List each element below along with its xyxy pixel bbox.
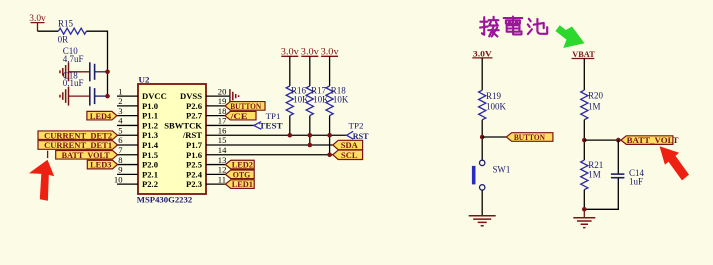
- svg-text:5: 5: [118, 125, 122, 135]
- power 3.0v top-left: [29, 13, 46, 31]
- svg-text:SCL: SCL: [341, 151, 358, 160]
- svg-text:3: 3: [118, 106, 122, 116]
- junction dot divider node: [582, 138, 587, 143]
- svg-text:P1.3: P1.3: [142, 130, 158, 140]
- wire R17 bottom: [309, 116, 311, 145]
- left pin numbers: [114, 86, 123, 184]
- hanzi 電: [504, 17, 523, 35]
- resistor R21: [581, 160, 604, 190]
- wire VBAT to R20: [583, 59, 585, 91]
- svg-text:LED3: LED3: [90, 161, 111, 170]
- svg-text:1M: 1M: [588, 169, 601, 179]
- svg-text:P2.3: P2.3: [186, 179, 202, 189]
- svg-text:BUTTON: BUTTON: [514, 133, 545, 142]
- svg-text:LED2: LED2: [232, 161, 253, 170]
- wire R21 to ground node: [583, 190, 585, 210]
- wire R19 to SW1: [481, 120, 483, 160]
- junction dot C14 tap: [616, 138, 621, 143]
- resistor R18: [326, 85, 349, 115]
- svg-text:1M: 1M: [588, 101, 601, 111]
- junction dot R18-SCL: [327, 152, 332, 157]
- junction dot R17-RST crossing: [308, 133, 313, 138]
- wire SW1 to ground: [481, 190, 483, 216]
- svg-text:14: 14: [218, 145, 227, 155]
- svg-text:BUTTON: BUTTON: [230, 102, 261, 111]
- svg-text:P1.6: P1.6: [186, 150, 203, 160]
- svg-text:P1.7: P1.7: [186, 140, 203, 150]
- junction dot ground node: [582, 207, 587, 212]
- svg-text:8: 8: [118, 155, 122, 165]
- chip pin names right column: [164, 91, 202, 189]
- resistor R17: [306, 85, 329, 115]
- IC U2 MSP430G2232 body: [137, 74, 206, 204]
- wire R18 bottom: [329, 116, 331, 155]
- svg-text:20: 20: [218, 86, 227, 96]
- capacitor C10: [63, 46, 108, 81]
- junction dot C10 node: [105, 70, 110, 75]
- svg-text:LED1: LED1: [232, 180, 253, 189]
- wire node to BATT_VOLT port: [584, 139, 621, 141]
- svg-text:P2.2: P2.2: [142, 179, 158, 189]
- capacitor C14: [611, 168, 645, 186]
- svg-text:4.7uF: 4.7uF: [63, 54, 84, 64]
- wire C14 bottom to ground node: [584, 178, 618, 210]
- svg-text:P1.4: P1.4: [142, 140, 159, 150]
- svg-text:LED4: LED4: [90, 112, 112, 121]
- port BUTTON at pin 19: [225, 102, 265, 111]
- svg-text:/CE: /CE: [229, 112, 248, 121]
- svg-text:0R: 0R: [58, 35, 69, 45]
- hanzi 池: [528, 19, 547, 34]
- junction dot BUTTON node: [480, 135, 485, 140]
- port SDA: [333, 140, 363, 150]
- svg-text:TEST: TEST: [259, 121, 283, 131]
- svg-text:16: 16: [218, 125, 227, 135]
- svg-text:12: 12: [218, 165, 227, 175]
- junction dot R16-RST: [288, 133, 293, 138]
- svg-text:13: 13: [218, 155, 227, 165]
- svg-text:P1.1: P1.1: [142, 111, 158, 121]
- port /CE at pin 18: [225, 111, 256, 120]
- wire R16 bottom: [289, 116, 291, 136]
- port BUTTON right: [506, 133, 553, 142]
- port BATT_VOLT left: [56, 150, 118, 159]
- red arrow right: [660, 146, 690, 180]
- svg-text:R20: R20: [588, 91, 604, 101]
- svg-text:1uF: 1uF: [629, 177, 643, 187]
- svg-text:10K: 10K: [333, 95, 349, 105]
- svg-text:U2: U2: [139, 74, 150, 84]
- svg-text:17: 17: [218, 116, 227, 126]
- svg-text:VBAT: VBAT: [572, 49, 595, 59]
- green arrow: [555, 25, 584, 48]
- stray tick left of BATT_VOLT: [47, 151, 49, 159]
- resistor R20: [581, 90, 604, 120]
- svg-text:TP2: TP2: [349, 120, 364, 130]
- svg-text:SDA: SDA: [341, 141, 358, 150]
- svg-text:4: 4: [118, 116, 123, 126]
- resistor R16: [286, 85, 309, 115]
- svg-text:19: 19: [218, 96, 227, 106]
- junction dot DVCC node: [105, 94, 110, 99]
- port BATT_VOLT right: [621, 136, 679, 145]
- wire power to R15: [38, 30, 59, 32]
- ground under SW1: [469, 216, 496, 226]
- svg-text:18: 18: [218, 106, 227, 116]
- svg-text:7: 7: [118, 145, 123, 155]
- svg-text:R19: R19: [486, 91, 502, 101]
- port SCL: [333, 150, 363, 160]
- ground for C10: [60, 62, 90, 81]
- svg-text:0.1uF: 0.1uF: [63, 78, 84, 88]
- svg-text:9: 9: [118, 165, 122, 175]
- svg-text:3.0v: 3.0v: [29, 13, 46, 23]
- port LED3: [87, 160, 117, 169]
- svg-text:1: 1: [118, 86, 122, 96]
- power 3.0v above R16: [281, 46, 300, 56]
- svg-text:P2.0: P2.0: [142, 160, 158, 170]
- svg-text:P1.0: P1.0: [142, 101, 158, 111]
- svg-text:BATT_VOLT: BATT_VOLT: [62, 151, 111, 160]
- svg-text:MSP430G2232: MSP430G2232: [137, 195, 193, 205]
- svg-text:DVCC: DVCC: [142, 91, 167, 101]
- wire R16 top: [289, 56, 291, 86]
- port LED1: [225, 180, 254, 189]
- svg-text:10: 10: [114, 174, 123, 184]
- svg-text:CURRENT_DET1: CURRENT_DET1: [44, 141, 112, 150]
- capacitor C18: [63, 71, 108, 106]
- svg-text:3.0v: 3.0v: [281, 46, 300, 56]
- svg-text:11: 11: [218, 174, 226, 184]
- port TEST open arrow: [254, 121, 283, 131]
- port RST open arrow: [347, 131, 369, 141]
- port CURRENT_DET2: [38, 131, 118, 140]
- port OTG: [225, 170, 254, 179]
- svg-text:3.0v: 3.0v: [321, 46, 340, 56]
- svg-text:RST: RST: [353, 131, 369, 141]
- svg-text:SW1: SW1: [493, 165, 511, 175]
- wire 3.0V to R19: [481, 58, 483, 90]
- svg-text:6: 6: [118, 135, 123, 145]
- port LED4: [87, 111, 117, 120]
- svg-text:R15: R15: [58, 19, 74, 29]
- svg-text:P2.1: P2.1: [142, 169, 158, 179]
- red arrow left: [29, 160, 54, 201]
- power VBAT: [572, 49, 595, 59]
- wire C14 branch down: [617, 140, 619, 174]
- wire R18 top: [329, 56, 331, 86]
- port LED2: [225, 160, 254, 169]
- power 3.0V right: [472, 48, 492, 58]
- svg-text:DVSS: DVSS: [180, 91, 202, 101]
- resistor R19: [479, 90, 507, 120]
- svg-text:P2.7: P2.7: [186, 111, 203, 121]
- hanzi 接: [480, 17, 499, 37]
- svg-text:SBWTCK: SBWTCK: [164, 120, 202, 130]
- svg-text:3.0v: 3.0v: [301, 46, 320, 56]
- svg-text:CURRENT_DET2: CURRENT_DET2: [44, 131, 112, 140]
- svg-text:OTG: OTG: [233, 170, 251, 179]
- wire R15 to DVCC node: [86, 31, 107, 96]
- wire R17 top: [309, 56, 311, 86]
- ground under R21 C14: [573, 209, 595, 227]
- right pin stubs 20-11: [206, 96, 347, 184]
- svg-text:P2.6: P2.6: [186, 101, 203, 111]
- svg-text:100K: 100K: [486, 102, 507, 112]
- wire R20 to R21: [583, 120, 585, 160]
- left pin stubs 1-10: [117, 96, 138, 184]
- svg-text:P2.4: P2.4: [186, 169, 203, 179]
- ground at pin 20: [230, 89, 239, 103]
- chip pin names left column: [142, 91, 167, 189]
- port CURRENT_DET1: [38, 141, 118, 150]
- svg-text:2: 2: [118, 96, 122, 106]
- svg-text:/RST: /RST: [182, 130, 202, 140]
- svg-text:3.0V: 3.0V: [473, 48, 493, 58]
- power 3.0v above R18: [321, 46, 340, 56]
- svg-text:TP1: TP1: [266, 111, 281, 121]
- svg-text:P2.5: P2.5: [186, 160, 202, 170]
- svg-text:BATT_VOLT: BATT_VOLT: [627, 136, 679, 145]
- junction dot R18-RST crossing: [327, 133, 332, 138]
- right pin numbers: [218, 86, 227, 184]
- svg-text:P1.5: P1.5: [142, 150, 158, 160]
- resistor R15: [58, 19, 87, 45]
- switch SW1: [472, 160, 510, 190]
- wire node to BUTTON port: [482, 136, 506, 138]
- svg-text:15: 15: [218, 135, 227, 145]
- svg-text:P1.2: P1.2: [142, 120, 158, 130]
- power 3.0v above R17: [301, 46, 320, 56]
- junction dot R17-SDA: [308, 143, 313, 148]
- ground for C18: [60, 87, 90, 106]
